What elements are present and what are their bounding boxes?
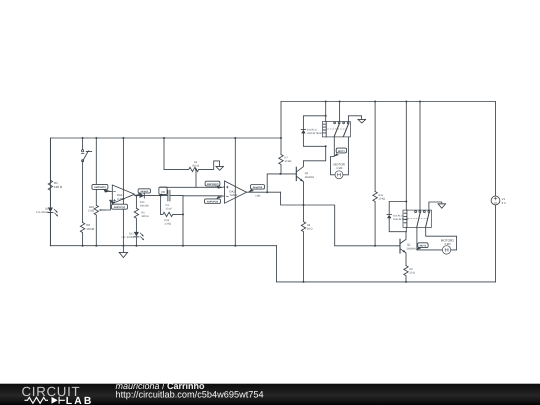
wire R6 branch vertical: [163, 138, 165, 169]
flag MOT1: [336, 148, 346, 153]
LED D1: [48, 208, 53, 213]
wire C3 output to ground rail: [182, 196, 184, 246]
flag MOT2: [418, 243, 428, 248]
svg-text:1N4148: 1N4148: [140, 204, 149, 207]
op-amp OA2 supply wire: [234, 138, 236, 246]
svg-text:http://circuitlab.com/c5b4w695: http://circuitlab.com/c5b4w695wt754: [116, 390, 264, 400]
svg-text:D14 RL14: D14 RL14: [393, 214, 404, 217]
transistor Q1: [295, 167, 297, 180]
resistor R2: [80, 223, 84, 246]
wire right column V1: [495, 102, 497, 282]
resistor R5: [134, 196, 138, 232]
relay RL2 coil: [404, 210, 407, 227]
op-amp OA1 supply wire: [122, 138, 124, 246]
svg-text:MOT1: MOT1: [338, 150, 345, 153]
junctions on top-left rail: [82, 137, 282, 139]
wire relay RL1 sw1 feed: [339, 102, 341, 122]
svg-text:LTL-30753: LTL-30753: [122, 236, 135, 239]
potentiometer R16: [94, 138, 98, 246]
resistor R12: [161, 212, 183, 216]
relay RL1 coil: [323, 122, 326, 137]
svg-text:1 kΩ: 1 kΩ: [336, 166, 343, 170]
motor M1: [335, 171, 343, 179]
relay RL1 switch 1: [334, 122, 336, 124]
svg-text:AMP1M(V): AMP1M(V): [207, 183, 219, 186]
svg-text:2N3904: 2N3904: [407, 247, 417, 250]
svg-text:10 kΩ: 10 kΩ: [285, 160, 292, 163]
svg-text:Q2: Q2: [407, 244, 411, 247]
wire R7 column: [280, 102, 282, 155]
junctions bottom-right rail: [303, 281, 408, 283]
svg-text:9 V: 9 V: [502, 201, 506, 205]
wire motor M1 left: [331, 137, 335, 175]
svg-text:2N3904: 2N3904: [305, 176, 315, 179]
resistor R7: [279, 155, 283, 174]
ground main: [122, 246, 124, 253]
capacitor C3: [168, 190, 183, 201]
wire OA1 output row: [135, 195, 168, 197]
relay RL2 switch 1: [415, 211, 417, 213]
wire R11 column: [374, 102, 376, 192]
wire motor M2 right: [426, 227, 457, 250]
switch SW1: [82, 138, 84, 149]
wire RL2 coil bottom to Q2 collector: [405, 227, 407, 231]
resistor R1: [48, 138, 52, 207]
op-amp OA2: [225, 181, 247, 203]
relay RL2 box: [403, 210, 432, 227]
svg-text:1N4148 T9AS1: 1N4148 T9AS1: [307, 132, 323, 135]
wire top-right rail: [281, 101, 496, 103]
svg-text:Q1: Q1: [305, 172, 309, 175]
flag cap: [159, 187, 167, 194]
flag AmpOut: [251, 185, 265, 190]
svg-text:LAB: LAB: [66, 396, 94, 405]
svg-text:AMP2P(V): AMP2P(V): [207, 201, 219, 204]
diode D11 flyback loop: [303, 116, 325, 147]
resistor R6: [164, 167, 212, 171]
svg-text:AMP1M(V): AMP1M(V): [94, 186, 106, 189]
wire relay RL2 sw1 feed: [419, 102, 421, 211]
resistor R9: [404, 266, 408, 282]
svg-text:TL081: TL081: [117, 197, 125, 201]
svg-text:10 kΩ: 10 kΩ: [86, 227, 95, 231]
svg-text:cap: cap: [161, 191, 166, 194]
voltage source V1: [491, 196, 500, 205]
svg-text:1 kΩ: 1 kΩ: [88, 209, 94, 213]
relay RL1 switch 2: [343, 122, 345, 124]
svg-text:AMP1P(V): AMP1P(V): [114, 206, 126, 209]
motor M2: [442, 246, 450, 254]
svg-text:120 Ω: 120 Ω: [54, 185, 63, 189]
wire bottom-right rail: [277, 281, 496, 283]
junctions on top-right rail: [325, 101, 421, 103]
diode D10: [140, 193, 145, 198]
flag AMP1P near OA1: [112, 204, 128, 209]
junctions OA1 output node: [135, 168, 197, 215]
wire relay RL2 coil feed: [405, 102, 407, 211]
svg-text:TL081: TL081: [229, 193, 237, 197]
svg-text:10 µF: 10 µF: [166, 207, 173, 210]
svg-text:D1: D1: [45, 207, 49, 210]
svg-text:500 Ω: 500 Ω: [192, 164, 199, 167]
wire OA2 output: [247, 191, 281, 193]
svg-text:1 kΩ: 1 kΩ: [444, 242, 451, 246]
relay RL2 switch 2: [424, 211, 426, 213]
wire left column: [49, 138, 51, 246]
wire OA2 output to Q2 base: [281, 192, 397, 246]
wire top-left rail: [50, 137, 281, 139]
logo resistor-diode glyph: [25, 397, 65, 404]
resistor R8: [301, 205, 305, 282]
svg-text:MOT2: MOT2: [420, 245, 427, 248]
svg-text:10 Ω: 10 Ω: [409, 271, 415, 274]
resistor R11: [373, 192, 377, 246]
junctions OA2 output and Q1 base nodes: [266, 173, 376, 247]
wire rail drop: [276, 246, 278, 282]
svg-text:1485: 1485: [255, 194, 261, 197]
wire branch to Q1 base: [267, 174, 280, 192]
wire R12 left leg: [160, 187, 162, 214]
svg-text:D11 RL11: D11 RL11: [307, 128, 318, 131]
wire R6 node to OA2 plus: [161, 169, 225, 187]
svg-text:ampq1: ampq1: [140, 190, 148, 193]
junctions relay flyback loops: [325, 115, 408, 203]
relay RL1 box: [322, 122, 350, 137]
wire motor M1 right: [343, 137, 348, 175]
flag ampq1: [138, 189, 150, 193]
transistor Q2: [399, 239, 401, 253]
ground at R6: [212, 161, 220, 170]
op-amp OA1: [112, 185, 134, 204]
svg-text:AmpOut: AmpOut: [253, 186, 263, 189]
relay RL1 coil feed: [325, 102, 327, 122]
ground relay RL1: [348, 116, 361, 122]
svg-text:330 Ω: 330 Ω: [141, 215, 148, 218]
diode D14 flyback loop: [389, 202, 406, 232]
flag AMP1M near OA2: [205, 181, 220, 186]
svg-text:10 kΩ: 10 kΩ: [378, 197, 385, 200]
wire Q1 base: [281, 173, 296, 175]
junctions on ground rail: [82, 245, 237, 247]
ground relay RL2: [429, 202, 442, 210]
wire bottom-left rail: [50, 245, 276, 247]
svg-text:LTL-30222: LTL-30222: [36, 211, 49, 214]
wire motor M2 left: [417, 227, 442, 250]
flag AMP1M near OA1: [92, 184, 108, 189]
LED D12: [134, 232, 139, 237]
wire Q1 collector to relay coil: [304, 146, 326, 161]
svg-text:1 MΩ: 1 MΩ: [165, 222, 171, 225]
wire to OA2 minus: [183, 195, 225, 197]
svg-text:38 Ω: 38 Ω: [307, 227, 313, 230]
flag AMP2P near OA2: [205, 199, 221, 204]
